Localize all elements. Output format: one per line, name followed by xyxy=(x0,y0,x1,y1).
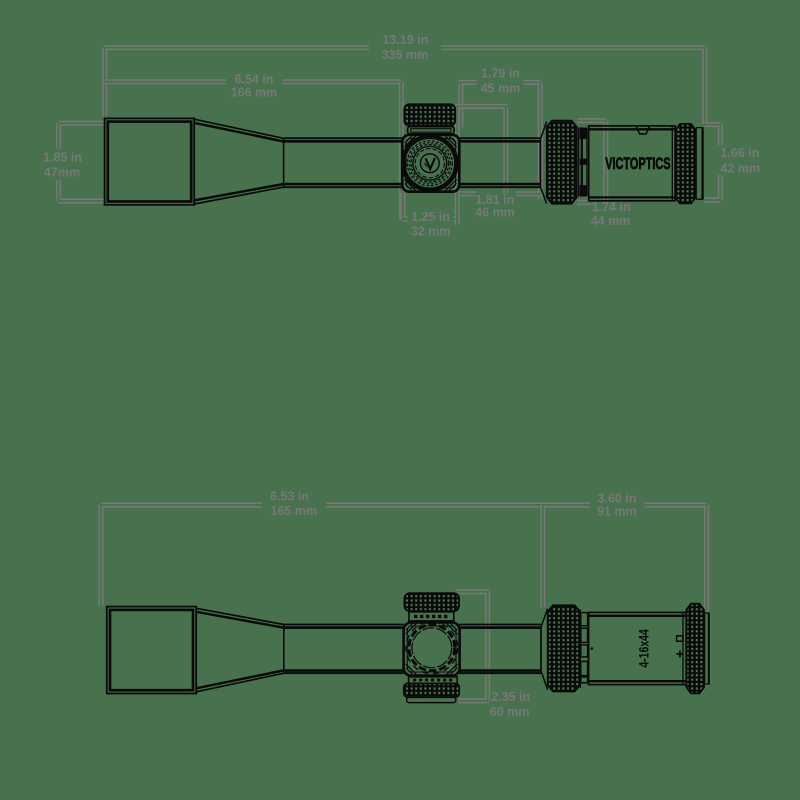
svg-text:VICTOPTICS: VICTOPTICS xyxy=(605,154,670,173)
eyepiece end ring (plan) xyxy=(704,613,706,684)
main tube left segment xyxy=(284,137,403,139)
svg-text:335 mm: 335 mm xyxy=(382,48,429,62)
label 1.74 in / 44 mm xyxy=(591,201,632,229)
label 13.19 in / 335 mm xyxy=(369,32,441,62)
diopter ring knurl (plan) xyxy=(686,604,704,694)
windage turret rings xyxy=(403,137,456,190)
eyepiece body (plan) xyxy=(589,612,687,684)
svg-text:165 mm: 165 mm xyxy=(271,504,318,518)
svg-text:32 mm: 32 mm xyxy=(411,224,451,238)
elevation turret cap rings (plan) xyxy=(406,622,458,674)
saddle corner accents (plan) xyxy=(406,623,458,675)
body index dot (plan) xyxy=(591,647,594,650)
parallax knob knurl (plan) xyxy=(404,683,459,697)
svg-text:1.79 in: 1.79 in xyxy=(481,66,520,80)
svg-text:44 mm: 44 mm xyxy=(591,214,631,228)
dimension 2.35 in / 60 mm width xyxy=(455,592,489,701)
diopter indicator marks (plan) xyxy=(677,636,683,641)
svg-text:13.19 in: 13.19 in xyxy=(382,33,428,47)
svg-text:6.54 in: 6.54 in xyxy=(235,72,274,86)
eyepiece body xyxy=(589,126,675,201)
svg-text:47mm: 47mm xyxy=(44,165,80,179)
label 3.60 in / 91 mm xyxy=(591,488,644,519)
power ring knurl (plan) xyxy=(548,605,580,691)
turret saddle outer xyxy=(402,135,459,192)
parallax knob base band (plan) xyxy=(409,677,458,684)
zoom step ring xyxy=(578,127,580,196)
dimension 3.60 in / 91 mm xyxy=(543,505,707,612)
saddle corner accents xyxy=(405,135,457,192)
dimension 1.25 in / 32 mm saddle width xyxy=(403,106,457,224)
label 1.85 in / 47mm xyxy=(42,150,84,179)
objective bell outer (plan) xyxy=(107,607,196,694)
svg-text:91 mm: 91 mm xyxy=(597,505,637,519)
windage knob base (plan) xyxy=(409,612,454,621)
shared extension line at eyepiece bell xyxy=(538,82,543,199)
main tube right segment xyxy=(459,137,541,139)
svg-text:1.66 in: 1.66 in xyxy=(720,146,759,160)
eyepiece end ring xyxy=(695,128,697,200)
dimension 6.53 in / 165 mm xyxy=(101,505,543,606)
svg-text:2.35 in: 2.35 in xyxy=(491,690,530,704)
taper cone lines xyxy=(194,119,283,138)
dimension 1.85 in / 47 mm objective diameter xyxy=(59,123,104,201)
dimension 1.81 in / 46 mm xyxy=(460,192,540,196)
saddle outer (plan) xyxy=(404,622,460,675)
top notch xyxy=(636,127,649,134)
turret saddle inner xyxy=(406,138,456,188)
extension from turret top xyxy=(455,106,508,193)
label 1.25 in / 32 mm xyxy=(408,209,454,238)
objective bell inner xyxy=(108,122,191,202)
svg-text:3.60 in: 3.60 in xyxy=(598,492,637,506)
dimension 13.19 in / 335 mm overall length xyxy=(105,48,705,125)
svg-text:4-16x44: 4-16x44 xyxy=(636,629,651,668)
eyepiece bell flare (plan) xyxy=(540,627,542,671)
svg-text:60 mm: 60 mm xyxy=(490,705,530,719)
taper/tube junction (plan) xyxy=(283,625,285,674)
elevation knob base band xyxy=(408,127,455,134)
dimension 1.74 in / 44 mm eyepiece ring diameter xyxy=(577,121,606,203)
taper/tube junction xyxy=(283,138,285,188)
main tube left segment (plan) xyxy=(284,624,404,626)
main tube right segment (plan) xyxy=(459,624,541,626)
elevation turret knob xyxy=(404,104,455,125)
label 6.53 in / 165 mm xyxy=(263,488,325,518)
svg-text:166 mm: 166 mm xyxy=(231,85,278,99)
label 2.35 in / 60 mm xyxy=(491,690,532,718)
objective bell inner (plan) xyxy=(110,610,193,690)
svg-text:6.53 in: 6.53 in xyxy=(270,490,309,504)
label 1.81 in / 46 mm xyxy=(475,195,516,218)
zoom step strip windows (plan) xyxy=(579,609,581,688)
parallax knob cap (plan) xyxy=(407,697,456,702)
taper cone lines (plan) xyxy=(196,608,284,624)
svg-text:1.74 in: 1.74 in xyxy=(592,200,631,214)
saddle inner (plan) xyxy=(407,626,456,672)
power ring knurl xyxy=(547,121,577,204)
dimension 1.79 in / 45 mm xyxy=(459,82,541,127)
eyepiece bell flare xyxy=(539,139,541,187)
objective bell outer xyxy=(105,118,195,204)
dimension 6.54 in / 166 mm xyxy=(105,82,402,219)
label 1.66 in / 42 mm xyxy=(722,145,762,176)
V logo xyxy=(420,154,439,173)
windage knob knurl (plan) xyxy=(404,593,459,611)
svg-text:42 mm: 42 mm xyxy=(720,161,760,175)
svg-text:1.85 in: 1.85 in xyxy=(43,151,82,165)
label 6.54 in / 166 mm xyxy=(227,70,281,99)
svg-text:1.25 in: 1.25 in xyxy=(411,210,450,224)
svg-text:46 mm: 46 mm xyxy=(475,205,515,219)
dimension 1.66 in / 42 mm eyepiece end diameter xyxy=(705,125,721,200)
svg-text:45 mm: 45 mm xyxy=(481,81,521,95)
label 1.79 in / 45 mm xyxy=(477,65,523,95)
diopter ring knurl xyxy=(675,124,695,203)
